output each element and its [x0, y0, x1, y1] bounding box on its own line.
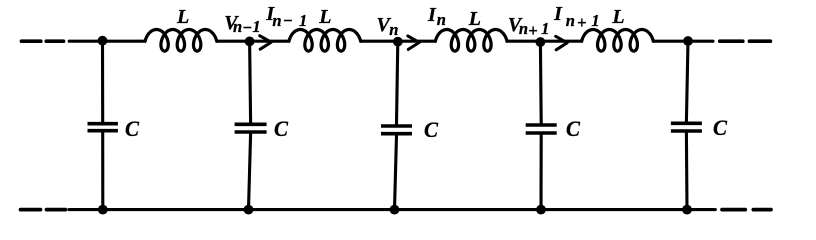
capacitor C2	[235, 41, 267, 209]
junction node bottom rail under C1	[98, 205, 108, 215]
junction node bottom rail under C4	[536, 205, 546, 215]
inductor L3	[435, 30, 507, 52]
current label I n-1	[266, 4, 274, 24]
value label L of inductor L1	[177, 7, 189, 27]
value label C of capacitor C1	[125, 118, 139, 141]
value label L of inductor L3	[469, 9, 481, 29]
capacitor C4	[526, 41, 557, 209]
voltage label V n	[377, 15, 390, 35]
wire top rail segment at node V n+1	[507, 40, 582, 43]
current label I n+1	[554, 4, 562, 24]
inductor L1	[145, 30, 217, 52]
arrow for current I n+1	[556, 36, 568, 50]
junction node bottom rail under C5	[682, 205, 692, 215]
node V n+1	[536, 37, 546, 47]
wire top rail left segment	[69, 40, 145, 43]
arrow for current I n	[408, 36, 420, 50]
value label C of capacitor C2	[274, 118, 288, 141]
wire top-left dashed continuation	[22, 39, 64, 43]
wire top-right dashed continuation	[720, 39, 771, 43]
wire top rail segment at node V n-1	[217, 40, 289, 43]
node V n-1	[245, 37, 255, 47]
inductor L4	[582, 30, 654, 52]
inductor L2	[289, 30, 361, 52]
value label C of capacitor C4	[566, 118, 580, 141]
junction node left (top rail)	[98, 36, 108, 46]
junction node bottom rail under C2	[244, 205, 254, 215]
wire top rail right segment	[653, 40, 713, 43]
junction node right (top rail)	[683, 36, 693, 46]
voltage label V n+1	[508, 15, 521, 35]
value label L of inductor L2	[319, 7, 331, 27]
arrow for current I n-1	[260, 36, 272, 50]
wire bottom-right dashed continuation	[722, 208, 771, 212]
wire top rail segment at node V n	[361, 40, 436, 43]
capacitor C1	[88, 41, 118, 209]
voltage label V n-1	[224, 13, 237, 33]
node V n	[393, 37, 403, 47]
capacitor C3	[381, 41, 412, 209]
capacitor C5	[671, 41, 702, 209]
value label C of capacitor C5	[713, 117, 727, 140]
current label I n	[428, 5, 436, 25]
junction node bottom rail under C3	[390, 205, 400, 215]
value label C of capacitor C3	[424, 119, 438, 142]
wire bottom rail	[69, 208, 715, 211]
wire bottom-left dashed continuation	[21, 208, 66, 212]
value label L of inductor L4	[612, 7, 624, 27]
